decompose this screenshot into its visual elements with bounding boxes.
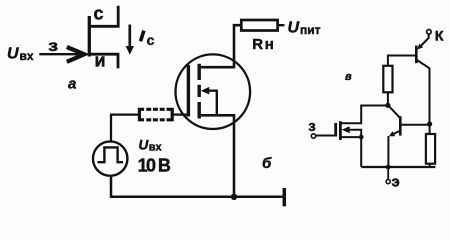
VT4 collector lead to node A <box>388 105 400 117</box>
pulse waveform symbol <box>98 147 124 162</box>
junction dot source <box>359 135 364 140</box>
resistor R2 <box>426 134 435 164</box>
node A dot <box>385 103 390 108</box>
svg-text:R: R <box>252 36 263 53</box>
svg-text:с: с <box>147 32 155 48</box>
wire dashed box to gate bar <box>173 113 188 115</box>
svg-text:а: а <box>68 75 76 92</box>
wire R1 top to VT3 base <box>388 56 415 66</box>
wire Rn to Upit <box>278 24 285 26</box>
svg-text:н: н <box>265 36 274 53</box>
channel segment drain <box>197 64 200 80</box>
transistor VT channel bar <box>88 16 91 57</box>
rail end bar terminal <box>283 188 287 206</box>
svg-text:U: U <box>7 46 19 63</box>
transistor VT3 (pnp) base bar <box>415 46 418 64</box>
channel segment substrate <box>197 85 200 97</box>
VT2 substrate arrow <box>342 126 362 167</box>
collector terminal K circle <box>427 30 432 35</box>
label Upit (supply voltage) <box>288 20 321 37</box>
gate arrowhead <box>67 47 85 62</box>
emitter terminal stub <box>387 167 389 180</box>
wire drain lead (c) <box>89 6 118 27</box>
svg-text:б: б <box>262 155 272 172</box>
rail junction dot <box>386 165 391 170</box>
svg-text:и: и <box>95 51 106 71</box>
wire R2 to rail <box>429 164 431 167</box>
gate terminal circle <box>311 134 315 138</box>
VT4 emitter lead with arrow <box>388 131 400 167</box>
wire node A to R1 <box>387 92 389 103</box>
svg-text:в: в <box>345 71 352 83</box>
VT2 gate bar <box>334 123 337 137</box>
wire node B to R2 <box>429 124 431 134</box>
svg-text:10 В: 10 В <box>138 156 171 176</box>
svg-text:з: з <box>48 38 58 55</box>
svg-text:U: U <box>288 20 300 37</box>
emitter terminal circle <box>386 180 390 184</box>
junction node dot <box>231 194 237 200</box>
wire gate lead <box>316 135 337 137</box>
wire drain up to node A <box>342 106 388 124</box>
wire source down to rail <box>201 115 234 197</box>
transistor VT4 (npn) base bar <box>399 116 402 135</box>
svg-text:К: К <box>435 28 444 44</box>
svg-text:пит: пит <box>300 23 321 37</box>
wire generator bottom + ground rail <box>111 176 284 197</box>
VT2 channel bar <box>339 121 342 140</box>
wire generator top to gate <box>111 115 140 142</box>
resistor R1 <box>383 66 392 93</box>
VT3 collector lead down to node B <box>417 60 430 124</box>
transistor VT1 envelope circle <box>176 54 251 129</box>
svg-text:вх: вх <box>149 142 163 154</box>
VT4 base lead to node B <box>402 124 430 126</box>
label Ic <box>141 31 155 49</box>
VT3 emitter lead with arrow <box>417 34 428 49</box>
label Uvx 10V (generator) <box>138 138 171 176</box>
substrate arrow <box>201 87 217 115</box>
gate bar <box>187 65 190 117</box>
svg-text:вх: вх <box>20 49 34 63</box>
node B dot <box>427 121 432 126</box>
label Rn <box>252 36 274 53</box>
svg-text:з: з <box>308 118 315 135</box>
emitter rail <box>361 166 435 168</box>
svg-text:с: с <box>94 4 104 24</box>
label Uvx (input voltage, fig a) <box>7 46 34 64</box>
channel segment source <box>197 102 200 119</box>
wire source lead (i) <box>89 54 118 68</box>
wire source stub <box>342 136 362 138</box>
dashed box (gate resistor, optional) <box>139 109 172 120</box>
pulse generator G circle <box>93 141 127 175</box>
wire drain to resistor Rn <box>201 25 242 67</box>
wire gate lead <box>39 53 85 55</box>
resistor Rn <box>241 20 277 31</box>
current arrow Ic <box>126 25 134 55</box>
svg-text:э: э <box>392 174 400 191</box>
